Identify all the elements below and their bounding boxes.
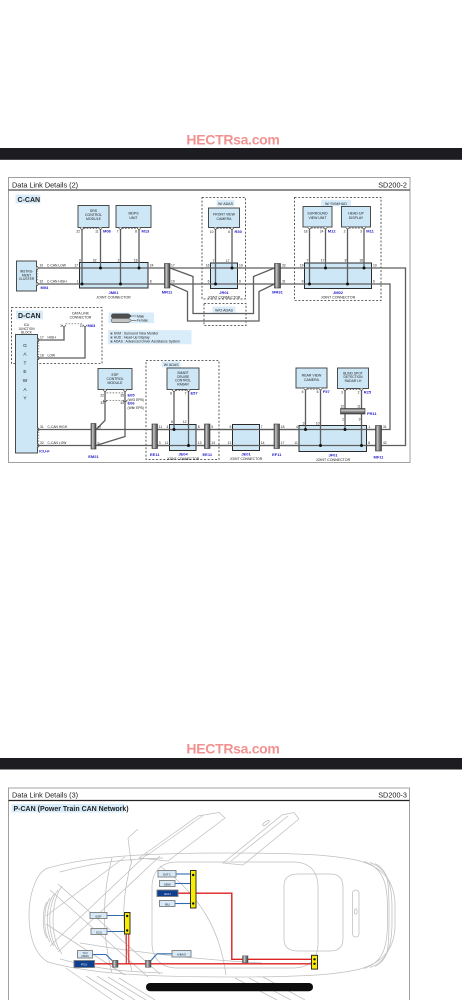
svg-text:R30: R30: [235, 229, 243, 234]
component BLIND SPOT DETECTION RADAR LH R25: [338, 368, 372, 395]
svg-text:2: 2: [118, 259, 120, 263]
svg-text:8: 8: [368, 441, 370, 445]
wire BSD pin 2 drop: [360, 391, 363, 448]
blue wire ESP: [107, 915, 125, 917]
svg-text:12: 12: [183, 420, 187, 424]
svg-text:M11: M11: [366, 229, 374, 234]
wire ESP left pins to EM21 pin 10: [96, 392, 105, 430]
svg-text:17: 17: [281, 441, 285, 445]
svg-text:3: 3: [159, 441, 161, 445]
svg-text:VIEW UNIT: VIEW UNIT: [308, 216, 327, 220]
wire DLC pin 11 to gateway 18: [38, 327, 86, 358]
joint connector JE01: [230, 425, 263, 461]
wire camera pin 6 drop: [231, 230, 234, 270]
component FRONT VIEW CAMERA R30: [209, 208, 243, 234]
svg-text:T: T: [24, 360, 27, 366]
svg-text:11: 11: [165, 441, 169, 445]
component DATA LINK CONNECTOR M63: [60, 311, 96, 328]
blue wire EATC: [176, 873, 191, 875]
svg-text:8: 8: [150, 280, 152, 284]
component SMART CRUISE CONTROL RADAR E57: [167, 368, 199, 396]
wire D-CAN low bus bottom: [38, 445, 376, 447]
module SBW: [160, 881, 176, 887]
wire C-CAN high bus bottom: [37, 284, 391, 430]
svg-text:4: 4: [296, 425, 298, 429]
svg-text:3: 3: [303, 422, 305, 426]
svg-text:5: 5: [229, 425, 231, 429]
svg-text:MF11: MF11: [373, 454, 384, 459]
connector EF11: [272, 424, 285, 457]
svg-text:Male: Male: [137, 314, 144, 318]
svg-text:E57: E57: [191, 391, 199, 396]
svg-text:JOINT CONNECTOR: JOINT CONNECTOR: [321, 296, 356, 300]
C-CAN section label: [16, 195, 41, 205]
svg-text:18: 18: [359, 259, 363, 263]
svg-text:19: 19: [300, 264, 304, 268]
joint connector JE04: [167, 425, 200, 461]
black separator bar 1: [0, 148, 462, 160]
wire bypass W/O ADAS outer: [170, 284, 275, 321]
svg-text:16: 16: [206, 264, 210, 268]
svg-text:P-CAN (Power Train CAN Network: P-CAN (Power Train CAN Network): [14, 806, 129, 813]
svg-text:C-CAN: C-CAN: [18, 197, 41, 204]
svg-text:42: 42: [383, 441, 387, 445]
svg-text:10: 10: [316, 422, 320, 426]
component REAR VIEW CAMERA F57: [296, 368, 330, 394]
svg-text:31: 31: [282, 280, 286, 284]
svg-text:8: 8: [170, 391, 172, 395]
svg-text:8: 8: [198, 425, 200, 429]
svg-text:18: 18: [281, 425, 285, 429]
svg-text:2: 2: [342, 417, 344, 421]
svg-text:(With EPB): (With EPB): [128, 406, 144, 410]
svg-text:(4WD): (4WD): [81, 954, 89, 958]
svg-text:JM01: JM01: [108, 290, 119, 295]
svg-text:IBU: IBU: [165, 902, 170, 906]
connector MF11: [373, 425, 386, 459]
connector bar yellow 2: [125, 913, 131, 935]
svg-text:9: 9: [98, 441, 100, 445]
svg-text:8: 8: [345, 259, 347, 263]
svg-text:E05: E05: [128, 393, 136, 398]
svg-text:9: 9: [359, 417, 361, 421]
svg-text:7: 7: [185, 391, 187, 395]
svg-text:JOINT CONNECTOR: JOINT CONNECTOR: [208, 295, 241, 299]
blue wire SBW: [175, 883, 191, 885]
svg-text:DISPLAY: DISPLAY: [349, 216, 364, 220]
svg-text:EE11: EE11: [203, 452, 213, 457]
svg-text:SCU: SCU: [96, 930, 102, 934]
car cabin and rear: [80, 862, 392, 976]
svg-text:JOINT CONNECTOR: JOINT CONNECTOR: [167, 457, 200, 461]
svg-text:7: 7: [261, 425, 263, 429]
svg-text:※ ADAS : Advanced Driver Assis: ※ ADAS : Advanced Driver Assistance Syst…: [110, 340, 180, 344]
wire RVC pin 5 drop: [304, 390, 307, 431]
svg-text:12: 12: [228, 441, 232, 445]
wire ESP right pins to EM21 pin 9: [96, 392, 125, 446]
wire D-CAN high bus top: [38, 429, 376, 431]
svg-text:6: 6: [208, 280, 210, 284]
dashed box D-CAN: [12, 308, 103, 364]
dashed box W/ SVM/HUD: [295, 198, 382, 301]
svg-text:SD200-2: SD200-2: [378, 180, 407, 189]
svg-text:RADAR LH: RADAR LH: [345, 379, 362, 383]
svg-text:10: 10: [40, 264, 44, 268]
svg-text:3: 3: [360, 229, 362, 233]
black rocker bar: [146, 983, 313, 991]
svg-text:11: 11: [80, 324, 84, 328]
svg-text:17: 17: [321, 259, 325, 263]
svg-text:11: 11: [294, 441, 298, 445]
component INSTRUMENT CLUSTER M04: [17, 261, 50, 291]
module ECU: [157, 890, 178, 897]
note box SVM HUD ADAS: [108, 330, 192, 344]
joint connector JF01: [299, 426, 367, 462]
svg-text:31: 31: [40, 425, 44, 429]
svg-text:ECU: ECU: [164, 892, 170, 896]
wire SRS pin 11 drop: [99, 230, 102, 270]
wire HUD pin 3 drop: [363, 229, 366, 270]
connector MR31: [272, 264, 286, 295]
blue wire TCU: [93, 955, 113, 961]
connector EM21: [88, 424, 101, 460]
gateway pin labels: [40, 336, 68, 446]
JM01 pin labels: [79, 259, 153, 284]
svg-text:MR31: MR31: [272, 290, 283, 295]
svg-text:PCU: PCU: [81, 963, 87, 967]
svg-text:3: 3: [341, 390, 343, 394]
svg-text:3: 3: [60, 324, 62, 328]
svg-text:FR11: FR11: [367, 411, 377, 416]
svg-text:BLOCK: BLOCK: [21, 330, 33, 334]
svg-text:9: 9: [302, 280, 304, 284]
wire labels instrument cluster: [40, 264, 79, 284]
svg-text:EF11: EF11: [272, 452, 282, 457]
svg-text:18: 18: [134, 259, 138, 263]
svg-text:M08: M08: [103, 229, 112, 234]
svg-text:32: 32: [40, 280, 44, 284]
inline connector on upper red wire: [243, 956, 249, 963]
svg-text:11: 11: [357, 404, 361, 408]
svg-text:9: 9: [239, 280, 241, 284]
component SRS CONTROL MODULE M08: [76, 206, 111, 234]
svg-text:MODULE: MODULE: [86, 217, 102, 221]
red wire pair from connector bar 2: [126, 934, 129, 964]
svg-text:JM02: JM02: [333, 290, 344, 295]
svg-text:8: 8: [135, 229, 137, 233]
svg-text:R25: R25: [364, 390, 372, 395]
svg-text:31: 31: [383, 425, 387, 429]
D-CAN section label: [16, 311, 43, 321]
svg-text:Female: Female: [137, 319, 148, 323]
svg-text:SBW: SBW: [164, 882, 171, 886]
svg-text:M04: M04: [41, 285, 50, 290]
svg-text:32: 32: [40, 441, 44, 445]
module A/BAG: [172, 951, 191, 958]
watermark HECTRsa.com bottom: [186, 741, 279, 757]
svg-text:11: 11: [159, 425, 163, 429]
wire camera pin 10 drop: [214, 230, 217, 286]
svg-text:7: 7: [117, 229, 119, 233]
svg-text:2: 2: [358, 390, 360, 394]
svg-text:LOW: LOW: [48, 354, 56, 358]
svg-text:W/ ADAS: W/ ADAS: [218, 202, 234, 206]
svg-text:D-CAN: D-CAN: [18, 313, 41, 320]
svg-text:W/ ADAS: W/ ADAS: [164, 363, 180, 367]
component ESP CONTROL MODULE E05 E06: [98, 369, 144, 410]
svg-text:JOINT CONNECTOR: JOINT CONNECTOR: [230, 457, 263, 461]
svg-text:6: 6: [228, 230, 230, 234]
inline connector on lower bus mid: [146, 960, 152, 967]
svg-text:W: W: [23, 378, 28, 384]
redraw buses over joint boxes: [158, 430, 376, 446]
module IBU: [160, 901, 176, 907]
JE01 pin labels: [228, 425, 265, 445]
module EATC: [158, 871, 176, 878]
red wire ECU to rear connector: [178, 893, 312, 959]
JF01 pin labels: [294, 422, 370, 446]
connector bar yellow rear: [312, 955, 318, 969]
car open doors: [128, 813, 299, 866]
JR01 pin labels: [206, 259, 243, 284]
svg-text:CAMERA: CAMERA: [217, 217, 233, 221]
svg-text:M63: M63: [88, 323, 97, 328]
svg-text:C-CAN LOW: C-CAN LOW: [47, 264, 67, 268]
svg-text:1: 1: [368, 425, 370, 429]
svg-text:ICU-F: ICU-F: [39, 448, 50, 453]
svg-text:10: 10: [210, 230, 214, 234]
module ESP: [90, 913, 107, 919]
svg-text:22: 22: [93, 259, 97, 263]
svg-text:10: 10: [373, 264, 377, 268]
svg-text:18: 18: [40, 354, 44, 358]
component HEAD-UP DISPLAY M11: [342, 207, 375, 234]
svg-text:E06: E06: [128, 401, 136, 406]
svg-text:22: 22: [76, 229, 80, 233]
svg-text:17: 17: [74, 264, 78, 268]
page 2 frame: [9, 788, 410, 1000]
svg-text:17: 17: [40, 336, 44, 340]
connector EE11 left: [150, 424, 162, 457]
wire C-CAN low bus top: [37, 268, 406, 446]
wire SVU pin 24 drop: [324, 229, 327, 270]
joint connector JM02: [305, 263, 372, 300]
blue wire IBU: [175, 903, 191, 905]
joint connector JM01: [80, 263, 149, 300]
wire SRS pin 22 drop: [81, 230, 84, 286]
legend male female: [109, 313, 155, 324]
wire SCC pin 7 drop: [187, 392, 190, 448]
svg-text:24: 24: [320, 229, 324, 233]
dashed box W/ ADAS (smart cruise): [146, 361, 219, 460]
svg-text:7: 7: [307, 259, 309, 263]
svg-text:Data Link Details (2): Data Link Details (2): [12, 180, 78, 189]
module PCU: [74, 961, 95, 968]
svg-text:2: 2: [344, 229, 346, 233]
svg-text:22: 22: [100, 393, 104, 397]
svg-text:JOINT CONNECTOR: JOINT CONNECTOR: [316, 458, 351, 462]
svg-text:EM21: EM21: [88, 454, 99, 459]
svg-text:17: 17: [226, 259, 230, 263]
svg-text:W/O ADAS: W/O ADAS: [215, 309, 233, 313]
svg-text:M12: M12: [328, 229, 337, 234]
component SURROUND VIEW UNIT M12: [303, 207, 336, 234]
blue wire SCU: [107, 931, 125, 933]
svg-text:HIGH: HIGH: [48, 336, 57, 340]
svg-text:19: 19: [239, 264, 243, 268]
wire SCC pin 8 drop: [173, 392, 176, 432]
connector bar yellow 1: [191, 871, 197, 909]
svg-text:1: 1: [77, 280, 79, 284]
svg-text:W/ SVM/HUD: W/ SVM/HUD: [325, 202, 347, 206]
connector EE11 right: [203, 424, 216, 457]
svg-text:A/BAG: A/BAG: [177, 953, 187, 957]
wire BSD pin 3 drop: [344, 391, 347, 432]
svg-text:Data Link Details (3): Data Link Details (3): [12, 791, 78, 800]
svg-text:33: 33: [100, 401, 104, 405]
svg-text:G: G: [23, 343, 27, 349]
wire HUD pin 2 drop: [346, 229, 349, 286]
svg-text:35: 35: [120, 393, 124, 397]
svg-text:32: 32: [282, 264, 286, 268]
car bottom reflection lines: [66, 968, 305, 1000]
svg-text:CONNECTOR: CONNECTOR: [70, 315, 92, 319]
dashed box W/O ADAS bypass: [204, 304, 246, 326]
svg-text:M13: M13: [142, 229, 151, 234]
svg-text:6: 6: [79, 259, 81, 263]
wire DLC pin 3 to gateway 17: [38, 327, 65, 340]
svg-text:SD200-3: SD200-3: [378, 791, 407, 800]
svg-text:6: 6: [317, 390, 319, 394]
red wire PCU lower bus: [95, 963, 312, 965]
svg-text:C-CAN HIGH: C-CAN HIGH: [47, 280, 67, 284]
car body outline: [29, 853, 395, 977]
JM02 pin labels: [300, 259, 377, 284]
module SCU: [91, 929, 107, 935]
svg-text:6: 6: [171, 420, 173, 424]
svg-text:CLUSTER: CLUSTER: [19, 277, 35, 281]
svg-text:EATC: EATC: [163, 873, 172, 877]
wire MDPS pin 8 drop: [138, 230, 141, 270]
svg-text:14: 14: [261, 441, 265, 445]
svg-text:MODULE: MODULE: [108, 381, 124, 385]
svg-text:5: 5: [211, 425, 213, 429]
page 1 frame: [9, 178, 411, 463]
module TCU: [78, 951, 93, 959]
wire bypass W/O ADAS inner: [170, 268, 275, 314]
svg-text:F57: F57: [323, 389, 331, 394]
svg-text:HECTRsa.com: HECTRsa.com: [186, 741, 279, 757]
svg-text:C-CAN LOW: C-CAN LOW: [48, 441, 68, 445]
P-CAN section label: [12, 804, 129, 813]
svg-text:E: E: [23, 369, 26, 375]
svg-text:MR11: MR11: [162, 290, 173, 295]
svg-text:JOINT CONNECTOR: JOINT CONNECTOR: [96, 296, 131, 300]
JE04 pin labels: [165, 420, 202, 445]
svg-text:12: 12: [340, 404, 344, 408]
svg-text:13: 13: [198, 441, 202, 445]
svg-text:10: 10: [98, 425, 102, 429]
svg-text:ESP: ESP: [95, 914, 101, 918]
svg-text:24: 24: [150, 264, 154, 268]
svg-text:HECTRsa.com: HECTRsa.com: [186, 132, 279, 148]
svg-text:4: 4: [166, 425, 168, 429]
svg-text:34: 34: [120, 401, 124, 405]
dashed box W/ ADAS (front view camera): [202, 198, 246, 300]
svg-text:6: 6: [373, 280, 375, 284]
svg-text:11: 11: [95, 229, 99, 233]
black separator bar 2: [0, 758, 462, 770]
svg-text:RADAR: RADAR: [177, 382, 189, 386]
blue wire A/BAG: [151, 954, 172, 961]
joint connector JR01: [208, 263, 241, 299]
svg-text:UNIT: UNIT: [129, 216, 138, 220]
component MDPS UNIT M13: [116, 206, 151, 234]
svg-text:5: 5: [302, 390, 304, 394]
svg-text:C-CAN HIGH: C-CAN HIGH: [48, 425, 68, 429]
connector FR11 horizontal: [340, 404, 377, 421]
watermark HECTRsa.com top: [186, 132, 279, 148]
svg-text:17: 17: [171, 264, 175, 268]
svg-text:CAMERA: CAMERA: [304, 378, 320, 382]
inline connector on lower bus left: [113, 960, 119, 967]
component ICU JUNCTION BLOCK GATEWAY: [16, 323, 51, 453]
svg-text:13: 13: [211, 441, 215, 445]
wire MDPS pin 7 drop: [119, 230, 122, 286]
svg-text:EE11: EE11: [150, 452, 160, 457]
svg-text:7: 7: [213, 259, 215, 263]
wire SVU pin 18 drop: [308, 229, 311, 286]
wire RVC pin 6 drop: [319, 390, 322, 447]
svg-text:19: 19: [171, 280, 175, 284]
svg-text:18: 18: [304, 229, 308, 233]
connector MR11: [162, 264, 175, 295]
